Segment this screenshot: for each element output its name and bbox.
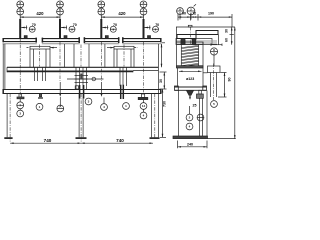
svg-text:30: 30 xyxy=(224,29,228,33)
svg-text:30: 30 xyxy=(159,79,163,83)
svg-text:60: 60 xyxy=(224,38,228,42)
svg-text:240: 240 xyxy=(187,143,193,147)
svg-text:14: 14 xyxy=(142,104,146,108)
svg-text:730: 730 xyxy=(163,101,167,107)
svg-text:90: 90 xyxy=(182,12,186,16)
svg-text:70: 70 xyxy=(155,23,159,27)
svg-text:70: 70 xyxy=(73,23,77,27)
svg-text:420: 420 xyxy=(36,11,44,16)
svg-text:420: 420 xyxy=(118,11,126,16)
svg-text:740: 740 xyxy=(44,138,52,143)
svg-text:740: 740 xyxy=(116,138,124,143)
svg-text:70: 70 xyxy=(32,23,36,27)
svg-text:190: 190 xyxy=(208,12,214,16)
svg-text:25: 25 xyxy=(193,104,197,108)
svg-text:ø123: ø123 xyxy=(186,77,194,81)
svg-text:72: 72 xyxy=(192,12,196,16)
svg-text:70: 70 xyxy=(113,23,117,27)
svg-text:90: 90 xyxy=(228,78,232,82)
